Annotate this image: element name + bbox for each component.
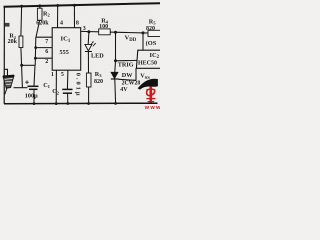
svg-text:820: 820 bbox=[94, 79, 103, 85]
wire bus R2 down to node bbox=[35, 20, 40, 65]
node dot trig tee bbox=[114, 59, 117, 62]
svg-text:6: 6 bbox=[45, 49, 48, 55]
bottom ground rail bbox=[4, 102, 158, 105]
wire down to trig node bbox=[115, 32, 117, 61]
LED triangle bbox=[85, 44, 92, 51]
wire rail to pin4 bbox=[57, 5, 59, 28]
wire IC2 VSS pin bbox=[135, 68, 137, 80]
node dot trig branch bbox=[114, 31, 117, 34]
IC U1 555 timer box bbox=[52, 28, 80, 70]
svg-text:3: 3 bbox=[83, 26, 86, 32]
wire IC1 pin5 lead bbox=[66, 70, 69, 89]
node dot zener ground bbox=[114, 102, 117, 105]
resistor R4 100 body bbox=[99, 29, 111, 35]
LED arrow 2 bbox=[93, 43, 96, 46]
wire VDD branch down to IC2 bbox=[142, 33, 144, 50]
svg-text:620k: 620k bbox=[36, 21, 49, 27]
watermark flag bbox=[138, 79, 158, 90]
svg-text:555: 555 bbox=[60, 49, 69, 56]
node dot rail-R1 bbox=[20, 5, 23, 8]
node dot R1/pins2-6 junction bbox=[20, 64, 23, 67]
wire R3 to ground rail bbox=[88, 87, 90, 104]
node dot bus pin6 bbox=[34, 46, 37, 49]
node dot pin1 ground bbox=[55, 102, 58, 105]
wire speaker top hook bbox=[4, 69, 7, 75]
wire node to bus bbox=[22, 64, 36, 66]
wire pin2 stub bbox=[35, 57, 52, 59]
label blob left bbox=[5, 23, 10, 27]
resistor R1 20k body bbox=[19, 36, 23, 48]
svg-text:100: 100 bbox=[99, 24, 108, 30]
capacitor C1 bottom plate bbox=[29, 88, 38, 90]
wire to LED anode bbox=[87, 32, 90, 45]
node dot C1 ground bbox=[33, 102, 36, 105]
svg-text:8: 8 bbox=[76, 21, 79, 27]
svg-text:(OS: (OS bbox=[146, 40, 157, 47]
wire C2 to ground bbox=[67, 93, 69, 103]
wire rail to R2 bbox=[39, 6, 41, 9]
wire pin7 stub bbox=[36, 36, 52, 38]
wire zener to ground bbox=[114, 79, 117, 103]
svg-text:4: 4 bbox=[60, 20, 63, 26]
wire LED to R3 bbox=[87, 52, 89, 74]
resistor R3 820 body bbox=[86, 73, 91, 87]
capacitor C1 top plate bbox=[28, 85, 39, 87]
wire rail to pin8 bbox=[73, 5, 75, 28]
node dot LED branch bbox=[87, 30, 90, 33]
zener diode DW triangle bbox=[111, 72, 118, 78]
node dot bus pin2 bbox=[34, 57, 37, 60]
svg-text:1: 1 bbox=[51, 72, 54, 78]
zener bar and VSS wire bbox=[111, 78, 119, 80]
svg-text:0.01µ: 0.01µ bbox=[75, 73, 82, 98]
node dot C2 ground bbox=[66, 102, 69, 105]
capacitor C2 bottom plate bbox=[63, 92, 72, 94]
LED arrow 1 bbox=[91, 42, 94, 45]
svg-text:LED: LED bbox=[91, 53, 104, 60]
resistor R2 620k body bbox=[37, 8, 42, 20]
speaker hatch bbox=[5, 78, 13, 79]
speaker body bbox=[3, 76, 14, 89]
speaker rim bbox=[3, 75, 14, 78]
svg-text:DW: DW bbox=[122, 72, 133, 79]
svg-text:w w w: w w w bbox=[144, 105, 160, 110]
wire R1 to lower node bbox=[21, 48, 23, 88]
capacitor C1 plus sign bbox=[25, 81, 29, 83]
node dot rail pin4 bbox=[56, 4, 59, 7]
node dot rail-R2 bbox=[38, 4, 41, 7]
wire IC1 pin1 to ground bbox=[55, 70, 57, 103]
node dot R3 ground bbox=[87, 102, 90, 105]
top VDD rail bbox=[4, 3, 161, 7]
speaker tail to rail bbox=[5, 88, 7, 95]
svg-text:820: 820 bbox=[146, 26, 155, 32]
wire trig to IC2 bbox=[116, 59, 138, 61]
svg-text:HEC50: HEC50 bbox=[138, 60, 157, 66]
wire pin3 output line bbox=[81, 31, 160, 33]
IC2 box (cut at right) bbox=[136, 50, 160, 68]
resistor R5 820 body bbox=[148, 30, 161, 36]
svg-text:7: 7 bbox=[45, 39, 48, 45]
wire pin6 stub bbox=[36, 47, 53, 49]
node dot R5 branch bbox=[142, 31, 145, 34]
svg-text:4V: 4V bbox=[120, 87, 128, 93]
wire trig node to zener bbox=[114, 61, 117, 73]
node dot rail pin8 bbox=[73, 4, 76, 7]
wire C1 top lead bbox=[34, 65, 35, 86]
svg-text:5: 5 bbox=[61, 72, 64, 78]
svg-text:2: 2 bbox=[45, 59, 48, 65]
svg-text:TRIG: TRIG bbox=[118, 61, 134, 68]
watermark red glyph bbox=[146, 87, 155, 103]
LED cathode bar bbox=[85, 51, 92, 53]
svg-text:2CW28: 2CW28 bbox=[122, 81, 141, 87]
wire rail to R1 bbox=[20, 6, 23, 36]
svg-text:20k: 20k bbox=[8, 39, 18, 45]
svg-text:100µ: 100µ bbox=[25, 92, 38, 99]
left border wire bbox=[3, 6, 5, 104]
wire C1 to ground bbox=[33, 89, 35, 103]
wire speaker to C1 bottom bbox=[14, 87, 28, 89]
capacitor C2 top plate bbox=[62, 88, 72, 90]
